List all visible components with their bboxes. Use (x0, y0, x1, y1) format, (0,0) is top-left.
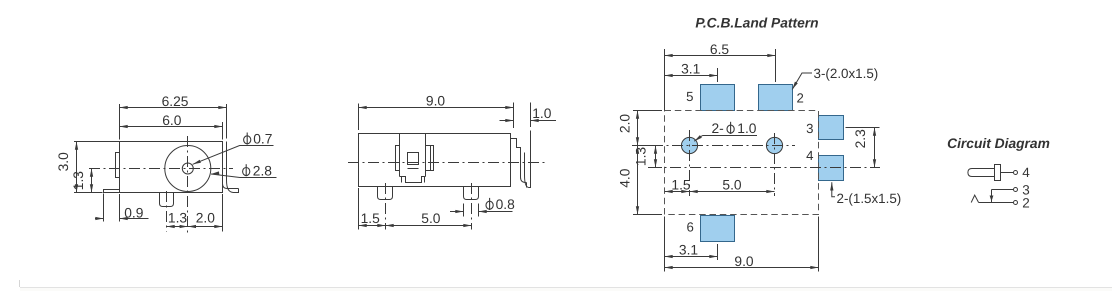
svg-text:4: 4 (1022, 165, 1030, 180)
svg-text:1.3: 1.3 (168, 211, 188, 226)
svg-text:P.C.B.Land Pattern: P.C.B.Land Pattern (695, 16, 818, 31)
svg-text:3.0: 3.0 (56, 152, 71, 172)
svg-text:1.5: 1.5 (361, 211, 381, 226)
svg-text:9.0: 9.0 (426, 93, 446, 108)
svg-text:Circuit Diagram: Circuit Diagram (947, 136, 1050, 151)
svg-text:2.0: 2.0 (196, 211, 216, 226)
svg-text:3.1: 3.1 (679, 242, 698, 257)
svg-text:3.1: 3.1 (681, 62, 700, 77)
svg-text:5: 5 (686, 89, 693, 104)
svg-text:6.25: 6.25 (162, 94, 189, 109)
svg-text:0.7: 0.7 (253, 132, 272, 147)
svg-text:2-(1.5x1.5): 2-(1.5x1.5) (837, 191, 902, 206)
svg-text:0.8: 0.8 (496, 197, 516, 212)
svg-text:2.8: 2.8 (253, 163, 273, 178)
svg-text:1.3: 1.3 (633, 147, 648, 167)
svg-text:2: 2 (1022, 195, 1030, 210)
svg-text:3-(2.0x1.5): 3-(2.0x1.5) (814, 66, 879, 81)
svg-text:1.0: 1.0 (737, 121, 757, 136)
svg-text:2.3: 2.3 (853, 129, 868, 149)
svg-text:6.0: 6.0 (162, 113, 182, 128)
svg-text:5.0: 5.0 (421, 211, 441, 226)
svg-text:1.5: 1.5 (671, 177, 691, 192)
svg-text:6: 6 (687, 220, 694, 235)
svg-text:9.0: 9.0 (734, 254, 754, 269)
svg-text:2: 2 (797, 90, 804, 105)
svg-text:3: 3 (806, 121, 813, 136)
svg-text:0.9: 0.9 (124, 206, 144, 221)
svg-text:6.5: 6.5 (710, 42, 730, 57)
svg-text:2-: 2- (712, 121, 724, 136)
svg-text:2.0: 2.0 (618, 114, 633, 134)
svg-text:5.0: 5.0 (722, 177, 742, 192)
svg-text:1.0: 1.0 (532, 106, 552, 121)
svg-text:1.3: 1.3 (71, 171, 86, 191)
svg-text:4.0: 4.0 (618, 168, 633, 188)
svg-text:4: 4 (806, 148, 813, 163)
